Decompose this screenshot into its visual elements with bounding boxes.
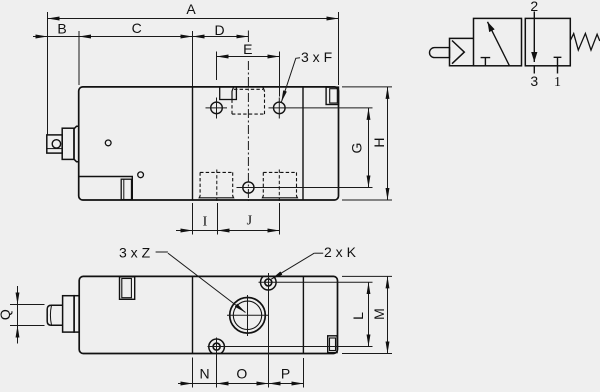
port 1 stub	[557, 66, 559, 74]
fitting tip inner arc	[50, 305, 51, 325]
dimension I span	[193, 230, 218, 232]
extension M bottom	[342, 353, 392, 355]
2xK leader dash	[314, 252, 323, 254]
F right crosshair / G top extension	[269, 107, 373, 109]
dimension Q line	[17, 286, 19, 344]
extension line x=79	[78, 31, 80, 85]
hidden port square right (dashed)	[263, 172, 296, 196]
hole bottom horizontal crosshair / L bottom extension	[208, 346, 373, 348]
extension line x=47	[47, 12, 49, 135]
section edge left (solenoid/body joint)	[192, 87, 194, 200]
dimension H	[387, 87, 389, 200]
svg-text:C: C	[132, 20, 142, 36]
extension J right	[279, 203, 281, 235]
fitting flange (top view)	[74, 126, 79, 161]
svg-text:E: E	[243, 41, 252, 57]
2xK leader	[271, 253, 314, 279]
dimension P span	[269, 383, 304, 385]
svg-text:M: M	[371, 308, 387, 320]
plunger actuator box	[450, 38, 474, 65]
fitting hex block (top view)	[47, 135, 62, 153]
dimension I outside arrow tail	[176, 230, 193, 232]
bottom-left ledge step	[79, 177, 133, 201]
extension N left	[192, 358, 194, 388]
hole bottom inner	[213, 343, 220, 350]
fitting hex tip	[47, 305, 62, 325]
clamp detail top-right inner	[330, 89, 338, 103]
ledge port detail rect	[121, 179, 131, 199]
valve symbol left square	[474, 18, 522, 65]
svg-text:D: D	[214, 22, 224, 38]
port square right center dashed line	[278, 170, 280, 202]
svg-text:A: A	[186, 1, 196, 17]
plunger chevron	[452, 41, 464, 64]
port square left center dashed line	[216, 170, 218, 202]
clamp detail bottom-right inner	[330, 338, 336, 351]
hole K top inner	[265, 279, 272, 286]
flow line 2-3 right square with arrow	[533, 18, 535, 62]
svg-text:2: 2	[530, 0, 538, 14]
dimension O span	[217, 383, 269, 385]
dimension C span	[79, 36, 193, 38]
counterbore chamfer right	[263, 87, 265, 91]
F left crosshair	[206, 107, 228, 109]
extension H top	[342, 86, 392, 88]
svg-text:3 x F: 3 x F	[301, 49, 332, 65]
fitting facet line	[47, 148, 62, 150]
small circle detail d2	[138, 172, 144, 178]
plunger stem pill	[430, 48, 450, 58]
counterbore left edge solid	[231, 91, 233, 100]
Q extension bottom	[10, 325, 45, 327]
mounting hole F left	[211, 102, 223, 114]
counterbore dashed top line	[234, 88, 263, 90]
hidden port square left (dashed)	[200, 172, 233, 196]
center hole horizontal crosshair / G bottom extension	[237, 187, 373, 189]
valve body outline bottom view	[79, 276, 337, 353]
mounting hole F right	[274, 102, 286, 114]
valve body outline top view	[79, 87, 339, 200]
port square right bottom chamfer	[262, 196, 297, 198]
clamp detail bottom-right outer	[328, 336, 337, 353]
svg-text:P: P	[281, 365, 290, 381]
extension M top	[342, 275, 392, 277]
extension O/P (hole K axis)	[268, 273, 270, 388]
section edge left bottom view	[192, 276, 194, 353]
svg-text:2 x K: 2 x K	[324, 244, 357, 260]
big hole Z outer	[230, 298, 266, 334]
dimension L	[368, 282, 370, 346]
svg-text:N: N	[199, 365, 209, 381]
extension P right	[303, 358, 305, 388]
fitting cylinder (top view)	[62, 128, 74, 159]
port square left bottom chamfer	[199, 196, 233, 198]
svg-text:O: O	[236, 365, 247, 381]
counterbore chamfer left	[232, 87, 234, 91]
port 3 stub	[533, 66, 535, 74]
counterbore hidden dashed outline	[232, 91, 265, 114]
fitting button circle	[52, 140, 60, 148]
svg-text:3 x Z: 3 x Z	[119, 245, 151, 261]
blocked port T right square	[554, 57, 562, 66]
dimension M	[387, 276, 389, 353]
svg-text:G: G	[349, 143, 365, 154]
dimension B outside arrow tail	[33, 36, 48, 38]
3xZ leader	[168, 253, 246, 312]
section edge right bottom view	[302, 276, 304, 353]
svg-text:H: H	[371, 137, 387, 147]
blocked port T left square	[481, 58, 491, 66]
Q extension top	[10, 304, 45, 306]
svg-text:I: I	[203, 214, 208, 229]
center hole (port)	[243, 182, 254, 193]
fitting rect A (next to body)	[74, 296, 79, 332]
hole bottom outer arc	[209, 339, 225, 353]
svg-text:3: 3	[530, 73, 538, 89]
svg-text:1: 1	[554, 75, 561, 90]
port 2 counterbore small rect	[220, 87, 237, 100]
big hole crosshair	[227, 314, 269, 316]
Q arrow bottom	[17, 326, 19, 340]
extension I/J mid	[217, 203, 219, 235]
clamp detail top-left inner	[122, 279, 132, 298]
return spring	[570, 33, 600, 50]
hole K top outer arc	[261, 276, 277, 290]
ledge port inner line	[123, 179, 125, 199]
extension I left	[192, 203, 194, 235]
extension D right	[247, 31, 249, 43]
svg-text:Q: Q	[0, 309, 13, 320]
dimension G	[368, 108, 370, 188]
big hole Z inner	[233, 301, 261, 329]
dimension N outside arrow tail	[178, 383, 193, 385]
section edge right	[302, 87, 304, 200]
svg-text:L: L	[350, 312, 366, 320]
hole K horizontal crosshair / L top extension	[259, 281, 373, 283]
clamp detail top-right outer	[326, 87, 338, 104]
extension line E left	[216, 52, 218, 81]
extension line E right	[279, 52, 281, 97]
dimension J span	[218, 230, 280, 232]
flow arrow left square (1 to 2)	[488, 22, 510, 66]
small circle detail d1	[105, 140, 111, 146]
3xZ leader dash	[156, 251, 168, 253]
extension H bottom	[342, 199, 392, 201]
Q arrow top	[17, 290, 19, 305]
dimension N span	[193, 383, 217, 385]
valve symbol right square	[525, 18, 570, 65]
extension N/O (bottom hole axis)	[216, 338, 218, 388]
main centerline vertical (dash-dot)	[247, 61, 249, 201]
dimension A line	[48, 18, 339, 20]
fitting rect B	[63, 296, 75, 332]
extension line x=338.5	[338, 12, 340, 85]
clamp detail top-left outer	[120, 277, 135, 300]
dimension E span	[217, 56, 280, 58]
extension line x=192.5 above body	[192, 31, 194, 86]
port 2 stub	[533, 12, 535, 19]
dimension D span	[193, 36, 249, 38]
svg-text:B: B	[57, 21, 66, 37]
svg-text:J: J	[247, 214, 253, 229]
3xF leader	[281, 58, 300, 103]
dimension B span	[48, 36, 80, 38]
